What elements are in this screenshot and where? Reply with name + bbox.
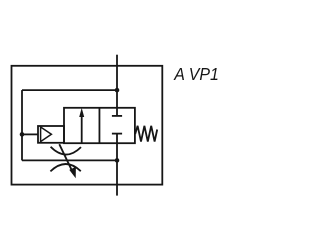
node: junction dot lower [115,158,120,163]
wire: bottom inner line [22,159,117,161]
enclosure box AVP1 [12,66,163,185]
node: junction dot left [20,132,25,137]
throttle upper arc [51,147,81,155]
pilot triangle [41,127,52,142]
wire: top port stub (main vertical upper) [116,55,118,116]
blocked port bottom crossbar [112,133,122,135]
wire: bottom port run (main vertical lower) [116,134,118,196]
throttle lower arc [50,164,80,171]
pilot box [38,126,64,143]
flow arrow (left cell) [81,116,83,144]
wire: upper pilot line [22,89,117,91]
svg-text:A VP1: A VP1 [173,64,218,84]
throttle adjust arrow [59,144,73,173]
wire: left vertical [21,90,23,160]
spring [135,126,157,142]
node: junction dot upper [115,88,120,93]
valve body box [64,108,135,143]
wire: pilot connection [22,133,38,135]
valve divider [98,108,100,143]
blocked port top crossbar [112,115,122,117]
